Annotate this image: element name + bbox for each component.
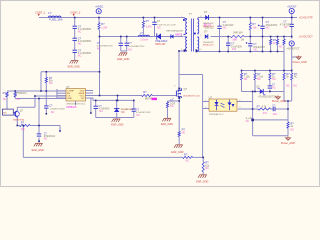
ground earth source tail [174,145,183,148]
label D4 value [203,42,215,47]
wire vdd feed [41,71,100,73]
resistor R10 fb div3 [269,73,271,80]
transistor Q1 mosfet [176,88,182,99]
wire box to base [13,112,15,114]
wire opto in stub top [203,101,209,103]
junction 40 [116,100,118,102]
transformer T1 secondary winding [198,18,199,35]
label R10 [272,72,276,81]
resistor R15 cs bottom [183,156,193,158]
junction 15 [277,36,279,38]
capacitor C10 series [273,107,275,111]
label R17 [257,106,268,115]
power gnd flag top [296,56,301,60]
svg-text:NC: NC [78,53,82,57]
junction 52 [252,108,254,110]
junction 59 [133,100,135,102]
junction 38 [117,95,119,97]
label CON1_1 [35,10,46,14]
wire bottom res tail [202,172,204,174]
wire fb right column c [283,80,285,101]
svg-text:+5 VOUT/CT: +5 VOUT/CT [299,36,313,39]
label R14 [182,128,186,135]
junction 36 [14,90,16,92]
wire opto out row [238,108,258,110]
label U3 part [258,95,276,98]
transformer T1 primary winding [184,18,188,35]
wire out cap column b [262,28,264,51]
wire sense res column [167,101,169,102]
wire fb div res3 c [269,90,271,92]
svg-text:R?: R? [143,90,147,94]
svg-text:EAR_GND: EAR_GND [32,149,44,152]
junction 7 [291,17,293,19]
wire out filter cap column [291,14,293,24]
wire xcap1 drop [120,37,122,44]
label R6 R7 value [279,45,283,49]
label C4 [223,20,234,29]
wire opto in stub bottom [203,108,209,110]
svg-text:NC: NC [3,98,7,101]
wire cs rail bottom [96,117,134,119]
capacitor C3 [73,50,77,52]
wire drain branch [179,74,203,76]
svg-text:NC: NC [244,77,248,81]
label power_gnd bottom [281,142,295,145]
junction 14 [270,36,272,38]
capacitor C9 fb [268,86,272,88]
wire fb div res1 b [241,80,243,92]
label R22 ref [21,120,25,124]
label CX2 [128,41,145,52]
label CON1_2 [70,10,81,14]
wire vdd res column b [45,83,47,91]
wire sense branch [168,100,180,102]
svg-text:Power_GND: Power_GND [272,100,286,103]
wire xcap2 drop b [126,45,128,51]
svg-text:NC: NC [272,77,276,81]
svg-text:Power_GND: Power_GND [293,61,307,64]
wire secondary mid rail [211,36,231,38]
label C10 [272,104,277,116]
svg-text:SB160-107: SB160-107 [203,45,215,47]
wire bulk cap column d [74,52,76,60]
wire fb right column b [283,45,285,73]
power port VOUT/CT [289,41,294,46]
wire cs cap1 column b [95,108,97,117]
label R4 value [252,25,257,29]
label R2 ref [146,19,150,23]
svg-text:1N4148-W: 1N4148-W [203,42,214,44]
resistor R8 fb div1 [240,73,242,80]
svg-text:Power_GND: Power_GND [281,142,295,145]
wire bias resistor row [17,125,19,127]
wire opto out stub top [237,101,253,103]
transistor Q2 bjt [14,111,19,118]
wire fb div res1 [241,71,243,74]
wire secondary top rail [199,17,298,19]
svg-text:C?: C? [97,41,101,45]
junction 8 [99,36,101,38]
svg-text:C?: C? [157,19,161,23]
pin numbers opto [205,100,241,109]
ground earth sense [162,118,171,121]
wire bundle v2 b [38,138,40,143]
svg-text:CR6842S: CR6842S [66,106,77,109]
junction 26 [269,70,271,72]
label +HVDC [95,6,103,9]
transformer T1 aux winding [196,37,198,51]
wire vdd cap column [45,91,47,106]
label Q2 part [13,120,25,122]
wire vdd res column [45,72,47,78]
wire zener column b [116,112,118,117]
svg-text:NC: NC [78,41,82,45]
label D3 value [203,23,215,28]
svg-text:SB560-107: SB560-107 [203,26,215,28]
capacitor C7 output2 [246,42,253,46]
svg-text:NC: NC [266,26,270,30]
wire ic gnd stub [75,101,77,105]
wire out cap column [262,18,264,27]
junction 16 [283,36,285,38]
inductor L2 dm choke [139,35,150,36]
svg-text:NC: NC [121,111,125,114]
label C6 [266,20,278,29]
label C9 [272,83,276,89]
wire bulk cap column b [74,28,76,38]
svg-text:NC: NC [246,120,250,123]
label R16 [205,161,210,170]
wire ic right stub down [90,99,92,114]
sheet border [1,1,320,187]
wire res2 column b [14,97,16,99]
label Q1 part [183,95,200,98]
wire ic pin1 net [7,90,66,92]
label D3 ref [204,10,208,14]
label C3 ref [78,48,82,52]
wire xcap join [121,50,127,52]
resistor R16 slope [202,162,204,172]
ground earth slope [198,175,207,178]
junction 55 [287,108,289,110]
wire gnd row [253,135,288,137]
label L2 ref [140,31,143,35]
junction 13 [262,36,264,38]
wire vout ct column [291,46,293,73]
svg-text:NC: NC [284,25,288,29]
label D2 value [175,34,183,37]
resistor R18 ctrl [287,122,289,128]
svg-text:R?: R? [252,22,256,26]
label power_gnd mid [272,100,286,103]
svg-text:GND: GND [67,98,72,100]
svg-text:NC: NC [78,29,82,33]
optocoupler U2 [209,99,237,111]
wire bottom return [23,156,182,158]
wire left return riser [22,126,24,158]
svg-text:U?: U? [209,95,213,99]
resistor R17 opto out [258,108,271,110]
junction 57 [46,113,48,115]
wire cs cap2 column b [133,112,135,118]
svg-text:NC: NC [294,75,298,78]
svg-text:NC: NC [293,84,297,88]
wire transformer bottom left [179,50,185,52]
wire fb right column [283,38,285,40]
label net a_ctrl [246,117,253,123]
wire startup column [99,30,101,96]
pin numbers mosfet [173,86,177,100]
connector J1 box [2,109,13,115]
resistor R2 clamp [142,21,144,28]
wire preload res2 column [277,37,279,40]
label ear_gnd sense [161,123,173,126]
resistor R3 aux series [230,35,244,37]
label Q1 ref [184,87,188,91]
capacitor C5 aux filter [226,43,230,45]
ground earth bulk caps [70,61,79,64]
wire sec gnd link [284,100,292,102]
junction 27 [283,70,285,72]
label C12 [44,132,56,140]
capacitor C4 snubber [217,26,221,28]
junction 17 [291,36,293,38]
svg-text:ATL431LI/SOT23: ATL431LI/SOT23 [258,95,276,98]
junction 2 [143,17,145,19]
svg-text:R?: R? [184,152,188,156]
svg-text:EAR_GND: EAR_GND [161,123,173,126]
label U1 part [66,103,86,108]
svg-text:NC: NC [81,98,85,100]
svg-text:D?: D? [204,10,208,14]
net label +5 VOUT/TP [299,17,313,20]
junction 10 [126,36,128,38]
label ear_gnd bottom left [32,149,44,152]
wire gate drive left [93,95,142,97]
label C11 [49,103,65,114]
svg-text:C?: C? [128,41,132,45]
label U3 ref [256,85,260,88]
junction 31 [269,91,271,93]
label R15 value [186,159,190,163]
wire AC line top [39,17,184,19]
capacitor CX1 [119,43,123,45]
wire fb div res2 b [254,80,256,92]
junction 5 [250,17,252,19]
label R18 [290,121,294,131]
wire preload res column [270,37,272,40]
transformer T1 phase dot secondary [194,33,196,35]
wire vdd cap column b [45,108,47,114]
label U2 ref [209,95,213,99]
wire bottom return b [193,156,204,158]
port CON1 pin1 [38,14,40,16]
svg-text:EAR_GND: EAR_GND [196,180,208,183]
svg-text:NC: NC [279,45,283,49]
label ear_gnd slope [196,180,208,183]
svg-text:EAR_GND: EAR_GND [68,66,80,69]
svg-text:PS2561AL2-1-V: PS2561AL2-1-V [209,113,224,116]
svg-text:CON?_2: CON?_2 [70,10,81,14]
wire res2 column [14,91,16,93]
capacitor C11 vdd [44,106,48,108]
svg-text:NC: NC [49,81,53,85]
wire ic right pin stubs [86,91,94,99]
wire collector link [17,106,35,108]
wire ic left pin stubs [57,91,66,98]
transformer T1 pin pad br [196,49,198,51]
svg-text:10k: 10k [252,25,257,29]
junction 4 [219,17,221,19]
wire cs rail top [93,99,134,101]
wire bundle v2 [38,99,40,134]
wire source column [178,98,180,132]
wire preload res2 column b [277,45,279,52]
wire row end stub [59,126,61,132]
wire opto out row b [271,108,274,110]
junction 25 [254,70,256,72]
diode D4 aux [205,34,208,39]
svg-text:NC: NC [17,98,21,101]
label C1 value [78,27,92,34]
ground earth bottom left [34,143,43,146]
label R12 [293,72,297,88]
svg-text:NC: NC [136,114,140,117]
svg-text:1.0mH: 1.0mH [140,38,148,42]
svg-text:NC: NC [272,86,276,89]
junction 48 [184,50,186,52]
wire fb div res3 b [269,80,271,86]
svg-text:NC: NC [286,84,290,88]
label D2 part [166,29,183,32]
junction 23 [277,51,279,53]
resistor R7 preload3 [283,39,285,44]
junction 46 [38,125,40,127]
junction 42 [38,98,40,100]
wire ctrl row [253,119,288,121]
zener diode ZD1 [114,109,119,112]
wire bottom res column [202,157,204,161]
wire snubber cap column [219,18,221,27]
label D1 [155,40,167,46]
svg-text:R?: R? [21,120,25,124]
wire fb div res2 [254,71,256,74]
wire vdd branch [40,72,42,91]
wire flag stub [292,56,297,58]
wire fb node stub b [287,128,289,136]
wire ic pin4 net [15,98,66,100]
label R23 ref [143,90,147,94]
svg-text:EAR_GND: EAR_GND [111,124,123,127]
label ear_gnd xcaps [117,58,129,61]
junction 39 [95,100,97,102]
wire aux cap column [227,37,229,44]
capacitor CX2 [125,43,129,45]
svg-text:1.0M: 1.0M [146,25,152,29]
wire ic pin3 to gate [92,96,94,101]
label R23 value highlight [152,98,157,100]
pin numbers transformer [181,16,202,51]
label R1 value [101,25,107,29]
wire out rc column c [249,46,251,51]
label R23 part [145,98,152,101]
junction 30 [254,91,256,93]
label R8 [244,72,251,81]
svg-text:C?: C? [49,103,53,107]
junction 1 [98,17,100,19]
svg-text:NC: NC [223,26,227,30]
svg-text:NC: NC [186,159,190,163]
svg-text:R?: R? [146,19,150,23]
capacitor C1 [73,26,77,28]
wire opto left column [202,75,204,158]
wire transistor emitter [16,118,18,126]
wire ic pin3 net [35,95,66,97]
svg-text:+5 VOUT/TP: +5 VOUT/TP [299,17,313,20]
label L1 ref [48,11,52,15]
label R5 value [273,41,276,45]
label L2 value [140,38,148,42]
wire sense res tail [167,108,169,118]
svg-text:104: 104 [273,112,278,116]
wire opto ctrl column [252,92,254,136]
junction 53 [251,119,254,122]
svg-text:NC: NC [44,138,48,141]
wire source res tail [178,137,180,145]
label R3 value [232,38,244,41]
wire transistor collector [16,107,18,110]
resistor R22 bias [19,124,30,126]
junction 56 [90,112,92,114]
wire bulk cap column c [74,40,76,50]
label U2 part [209,113,224,116]
svg-text:NC: NC [257,77,261,81]
label ear_gnd bulk [68,66,80,69]
resistor R4 out rc [249,23,251,31]
junction 33 [99,71,101,73]
ic U1 controller [66,89,86,102]
label T1 value [204,23,215,30]
wire feedback divider top [242,70,292,72]
label R22 value [21,127,26,131]
label T1 ref [189,12,193,16]
label R3 part [233,32,243,35]
svg-text:NC: NC [128,47,132,51]
junction 50 [178,100,180,102]
junction 34 [40,90,42,92]
junction 11 [227,36,229,38]
junction 47 [178,50,180,52]
label R13 [170,99,175,108]
wire ycap column [154,18,156,23]
wire snubber cap column b [219,28,221,51]
junction 19 [227,51,229,53]
resistor R6 preload2 [276,39,278,44]
port CON1 pin2 [73,14,75,16]
svg-text:1.0M: 1.0M [101,25,107,29]
resistor R12 fb right2 [291,73,293,80]
junction 51 [202,157,204,159]
wire secondary return rail [196,51,284,53]
resistor R1 startup [98,23,100,30]
label ear_gnd source [171,151,183,154]
resistor R13 sense [166,102,168,108]
wire bundle v1 [34,96,36,107]
wire tl431 row [242,91,285,93]
svg-text:D?: D? [204,29,208,33]
wire preload res column b [270,45,272,52]
